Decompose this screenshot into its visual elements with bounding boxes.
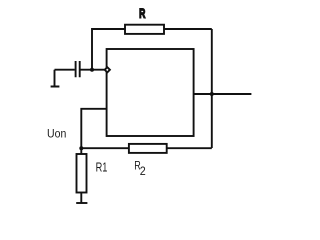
node junction (cap / R feedback): [90, 68, 94, 72]
svg-text:R1: R1: [96, 161, 108, 175]
wire output: [194, 93, 252, 95]
wire node to R1: [80, 148, 82, 154]
amplifier block U1: [107, 49, 194, 136]
pin diamond (non-inverting input): [105, 67, 110, 72]
wire junction up to resistor R: [92, 29, 125, 70]
svg-text:2: 2: [140, 164, 146, 178]
svg-text:Uon: Uon: [47, 128, 66, 140]
wire inverting input to R1/R2 node: [81, 109, 106, 148]
svg-text:R: R: [139, 8, 145, 20]
wire capacitor to amplifier input: [81, 69, 106, 71]
resistor R2: [129, 144, 167, 153]
wire ground to capacitor: [55, 69, 75, 71]
resistor R: [125, 25, 164, 34]
wire resistor R to right vertical: [164, 28, 212, 30]
node junction (output / feedback): [210, 92, 214, 96]
resistor R1: [77, 154, 87, 193]
wire R2 to feedback bus: [167, 147, 212, 149]
wire R1 to ground: [80, 193, 82, 204]
capacitor C1: [76, 61, 80, 77]
ground (bottom of R1): [76, 202, 87, 204]
wire node to R2: [81, 147, 129, 149]
wire right vertical (feedback bus): [211, 29, 213, 148]
ground (input, top-left): [51, 70, 60, 87]
node junction (R1 / R2 / input): [79, 146, 83, 150]
